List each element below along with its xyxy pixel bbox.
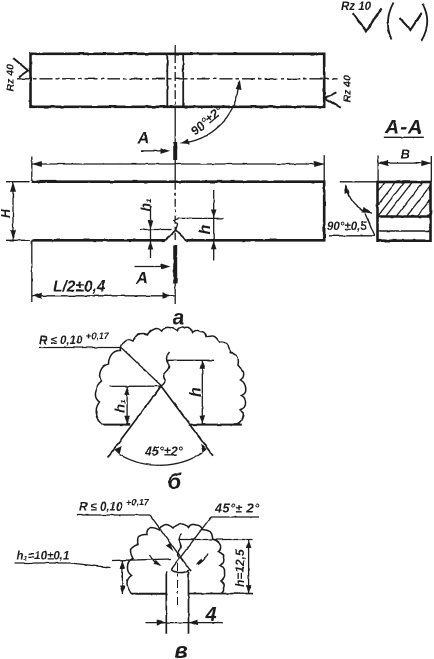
svg-text:h₁=10±0,1: h₁=10±0,1	[17, 551, 70, 563]
svg-text:+0,17: +0,17	[86, 331, 110, 341]
section A-A	[327, 117, 431, 241]
V notch left slope	[108, 386, 162, 457]
h1 ref line	[112, 559, 171, 561]
svg-text:h₁: h₁	[112, 399, 128, 413]
inner thin line	[378, 230, 431, 232]
dimension h front	[197, 190, 217, 260]
dim 4	[146, 622, 224, 624]
notch V	[165, 230, 186, 240]
leader R (right wall extension)	[150, 515, 191, 571]
notch plane line	[378, 215, 431, 217]
V notch right slope	[161, 386, 213, 456]
dim h v	[248, 540, 250, 594]
svg-text:Rz 40: Rz 40	[5, 64, 17, 92]
dimension H	[0, 182, 30, 241]
svg-text:h₁: h₁	[138, 198, 154, 212]
svg-text:h: h	[188, 387, 205, 397]
slot left	[165, 571, 167, 633]
dimension L	[32, 156, 324, 181]
svg-text:б: б	[168, 469, 183, 494]
svg-text:90°±0,5: 90°±0,5	[327, 221, 367, 233]
svg-text:в: в	[175, 638, 188, 659]
svg-text:а: а	[173, 307, 185, 330]
angle arc 90deg2	[187, 83, 239, 143]
svg-text:Rz 40: Rz 40	[342, 75, 354, 103]
h top reference	[168, 359, 214, 361]
svg-text:Rz 10: Rz 10	[341, 1, 372, 13]
45deg arc	[120, 453, 203, 465]
dim h1	[126, 386, 128, 424]
arrow A top	[141, 150, 162, 152]
svg-text:45°±2°: 45°±2°	[144, 445, 184, 459]
figure v detail	[15, 498, 261, 659]
cloud outline	[95, 327, 245, 425]
dimension L/2	[32, 240, 175, 302]
figure b detail	[39, 327, 246, 494]
svg-text:B: B	[401, 147, 410, 162]
surface line right	[188, 424, 241, 426]
dim h	[201, 360, 203, 424]
top view bar	[5, 54, 354, 145]
svg-text:4: 4	[205, 604, 217, 626]
left extension line	[340, 181, 378, 183]
90deg arc	[346, 186, 372, 214]
svg-text:H: H	[0, 208, 13, 218]
h1 apex reference line	[140, 229, 172, 231]
cutting plane centerline	[174, 46, 176, 55]
svg-text:R ≤ 0,10: R ≤ 0,10	[39, 335, 83, 347]
svg-text:A-A: A-A	[384, 117, 423, 139]
hatch	[378, 182, 431, 217]
notch edge line left	[166, 55, 168, 107]
inner break line	[161, 352, 169, 386]
slot centerline	[177, 563, 179, 608]
roughness block Rz10	[341, 1, 427, 41]
dim h1 v	[121, 561, 123, 595]
notch edge line right	[182, 55, 184, 107]
leader 45 (left wall extension)	[171, 517, 211, 569]
svg-text:90°±2°: 90°±2°	[188, 103, 227, 139]
svg-text:45°± 2°: 45°± 2°	[214, 502, 260, 516]
dimension h1 front	[138, 198, 154, 258]
section square	[378, 182, 431, 241]
svg-text:L/2±0,4: L/2±0,4	[53, 279, 106, 296]
notch V arc bottom	[171, 569, 189, 572]
surface line right (with h ext)	[189, 593, 254, 595]
svg-text:A: A	[135, 270, 148, 288]
slot right	[188, 572, 190, 634]
curved arrow left	[150, 555, 161, 566]
notch zigzag break	[174, 218, 179, 230]
front view bar	[32, 182, 324, 241]
svg-text:h: h	[197, 225, 214, 235]
cloud outline	[127, 524, 225, 594]
svg-text:h=12,5: h=12,5	[233, 549, 247, 587]
h top reference line	[179, 217, 224, 219]
svg-text:A: A	[137, 130, 150, 148]
h ref top line	[178, 539, 253, 541]
svg-text:R ≤ 0,10: R ≤ 0,10	[79, 502, 123, 514]
surface line left	[132, 593, 167, 595]
arrow A bottom	[135, 266, 162, 268]
horizontal centerline	[17, 78, 337, 80]
curved arrow right	[198, 554, 208, 565]
section trace marks A	[135, 130, 175, 288]
h1 apex reference	[109, 385, 161, 387]
svg-text:+0,17: +0,17	[126, 498, 150, 508]
surface line left	[103, 424, 130, 426]
